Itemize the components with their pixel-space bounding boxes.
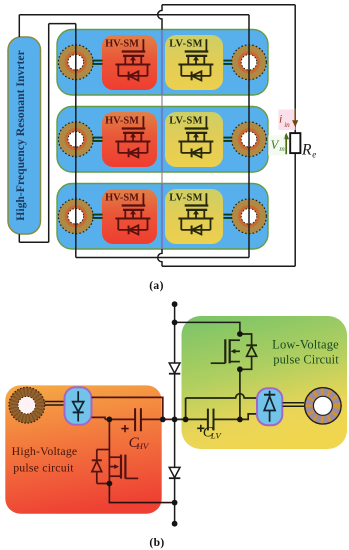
resistor Re [290,133,300,153]
current arrow i_in [292,109,298,128]
mosfet+diode symbol in HV-SM M2 [115,116,150,157]
LV-SM box M1 [165,35,223,90]
mosfet+diode symbol in LV-SM M1 [178,39,213,80]
svg-text:(b): (b) [149,537,164,549]
mosfet+diode symbol in LV-SM M2 [178,116,213,157]
module M1 box [57,30,268,96]
svg-text:in: in [284,121,290,129]
wire: HV mosfet drain vertical [108,419,110,483]
toroid transformer right M2 [232,122,267,157]
wire: LV drain feed [175,322,240,334]
wire: bottom left segment [19,241,48,243]
mosfet+diode symbol in LV-SM M3 [178,193,213,234]
svg-text:High-Frequency Resonant Invrte: High-Frequency Resonant Invrter [14,50,27,221]
winding connector right M1 [224,61,233,64]
svg-text:pulse Circuit: pulse Circuit [273,353,339,367]
wire: series bus inside module M1 [161,30,163,96]
wire: output bus gap2 [161,172,163,184]
wire: output bus bottom with hop [158,249,162,266]
label i_in [279,110,296,131]
LV mosfet Q2 [211,339,240,363]
wire: output bus gap1 [161,95,163,107]
mosfet+diode symbol in HV-SM M3 [115,193,150,234]
capacitor C_LV [208,409,214,431]
svg-text:HV: HV [136,441,150,451]
winding connector HV [45,402,65,406]
winding connector left M1 [92,61,102,64]
svg-text:LV-SM: LV-SM [169,193,203,204]
wire: HV diode box bottom link [92,417,106,419]
label High-Voltage pulse circuit [12,444,78,474]
Low-Voltage pulse Circuit box [182,316,348,449]
plus sign C_HV [121,425,128,432]
winding connector right M3 [224,215,233,218]
wire: load right lower [294,125,296,266]
toroid transformer left M3 [58,199,93,234]
svg-text:R: R [301,142,312,159]
svg-text:m: m [279,144,285,153]
wire: center line segments [174,304,176,524]
toroid transformer right M3 [232,199,267,234]
svg-text:HV-SM: HV-SM [105,193,139,204]
svg-text:e: e [312,150,316,160]
svg-text:pulse circuit: pulse circuit [13,460,74,474]
capacitor C_HV [135,408,141,431]
label C_HV [129,435,150,451]
HV diode box D4 [65,387,92,425]
winding connector right M2 [224,138,233,141]
svg-text:(a): (a) [149,280,164,292]
High-Voltage pulse circuit box [5,385,161,513]
wire: right thread through right toroids [248,15,250,258]
wire: inverter top lead [18,15,20,37]
LV-SM box M3 [165,189,223,244]
wire: left thread through left toroids [75,24,77,258]
module M2 box [57,107,268,173]
svg-text:HV-SM: HV-SM [105,116,139,127]
wire: LV upper link vertical [185,398,187,419]
svg-text:High-Voltage: High-Voltage [12,444,78,458]
svg-text:Low-Voltage: Low-Voltage [272,338,339,352]
toroid transformer left M1 [58,45,93,80]
wire: LV source down [239,369,241,419]
wire: LV main bus [175,418,240,420]
High-Frequency Resonant Invrter box [8,37,41,234]
wire: series bus inside module M2 [161,107,163,173]
toroid transformer left M2 [58,122,93,157]
LV-SM box M2 [165,112,223,167]
wire: output bus top with hop [158,5,162,30]
label C_LV [203,424,223,440]
wire: HV bottom return [109,484,174,503]
label Re [301,142,316,160]
winding connector left M3 [92,215,102,218]
svg-text:LV-SM: LV-SM [169,116,203,127]
HV-SM box M1 [102,35,157,90]
mosfet+diode symbol in HV-SM M1 [115,39,150,80]
wire: inner left vertical [48,24,50,243]
wire: bottom bus of primary loop [76,257,249,259]
plus sign C_LV [197,425,204,432]
module M3 box [57,184,268,250]
junction and terminal dots [107,301,243,526]
voltage arrow Vm [283,133,289,155]
diode D2 on center line [169,467,180,478]
wire: LV jog to diode box [240,414,257,420]
wire: HV cap bus [105,418,175,420]
toroid transformer right M1 [232,45,267,80]
svg-text:LV: LV [210,430,223,440]
diode D1 on center line [169,363,180,374]
wire: series bus inside module M3 [161,184,163,250]
svg-text:LV-SM: LV-SM [169,39,203,50]
HV mosfet Q1 [109,455,138,479]
wire: load top [162,4,295,6]
label Vm [268,136,285,156]
svg-text:HV-SM: HV-SM [105,39,139,50]
LV body diode branch [240,334,257,369]
svg-text:i: i [279,112,282,126]
toroid LV output [305,388,341,424]
wire: load bottom [162,265,295,267]
label Low-Voltage pulse Circuit [272,338,339,367]
wire: inverter bottom lead [18,234,20,242]
winding connector LV [283,403,304,407]
HV-SM box M2 [102,112,157,167]
wire: top bus of primary loop [19,14,249,16]
wire: HV diode box to cap top link [92,397,163,419]
wire: load right upper [294,5,296,110]
wire: LV upper link with hop [186,394,257,398]
winding connector left M2 [92,138,102,141]
LV diode box D3 [257,388,282,425]
wire: inner top segment [49,23,76,25]
HV-SM box M3 [102,189,157,244]
HV antiparallel diode branch [92,450,110,484]
toroid HV input [9,387,45,423]
